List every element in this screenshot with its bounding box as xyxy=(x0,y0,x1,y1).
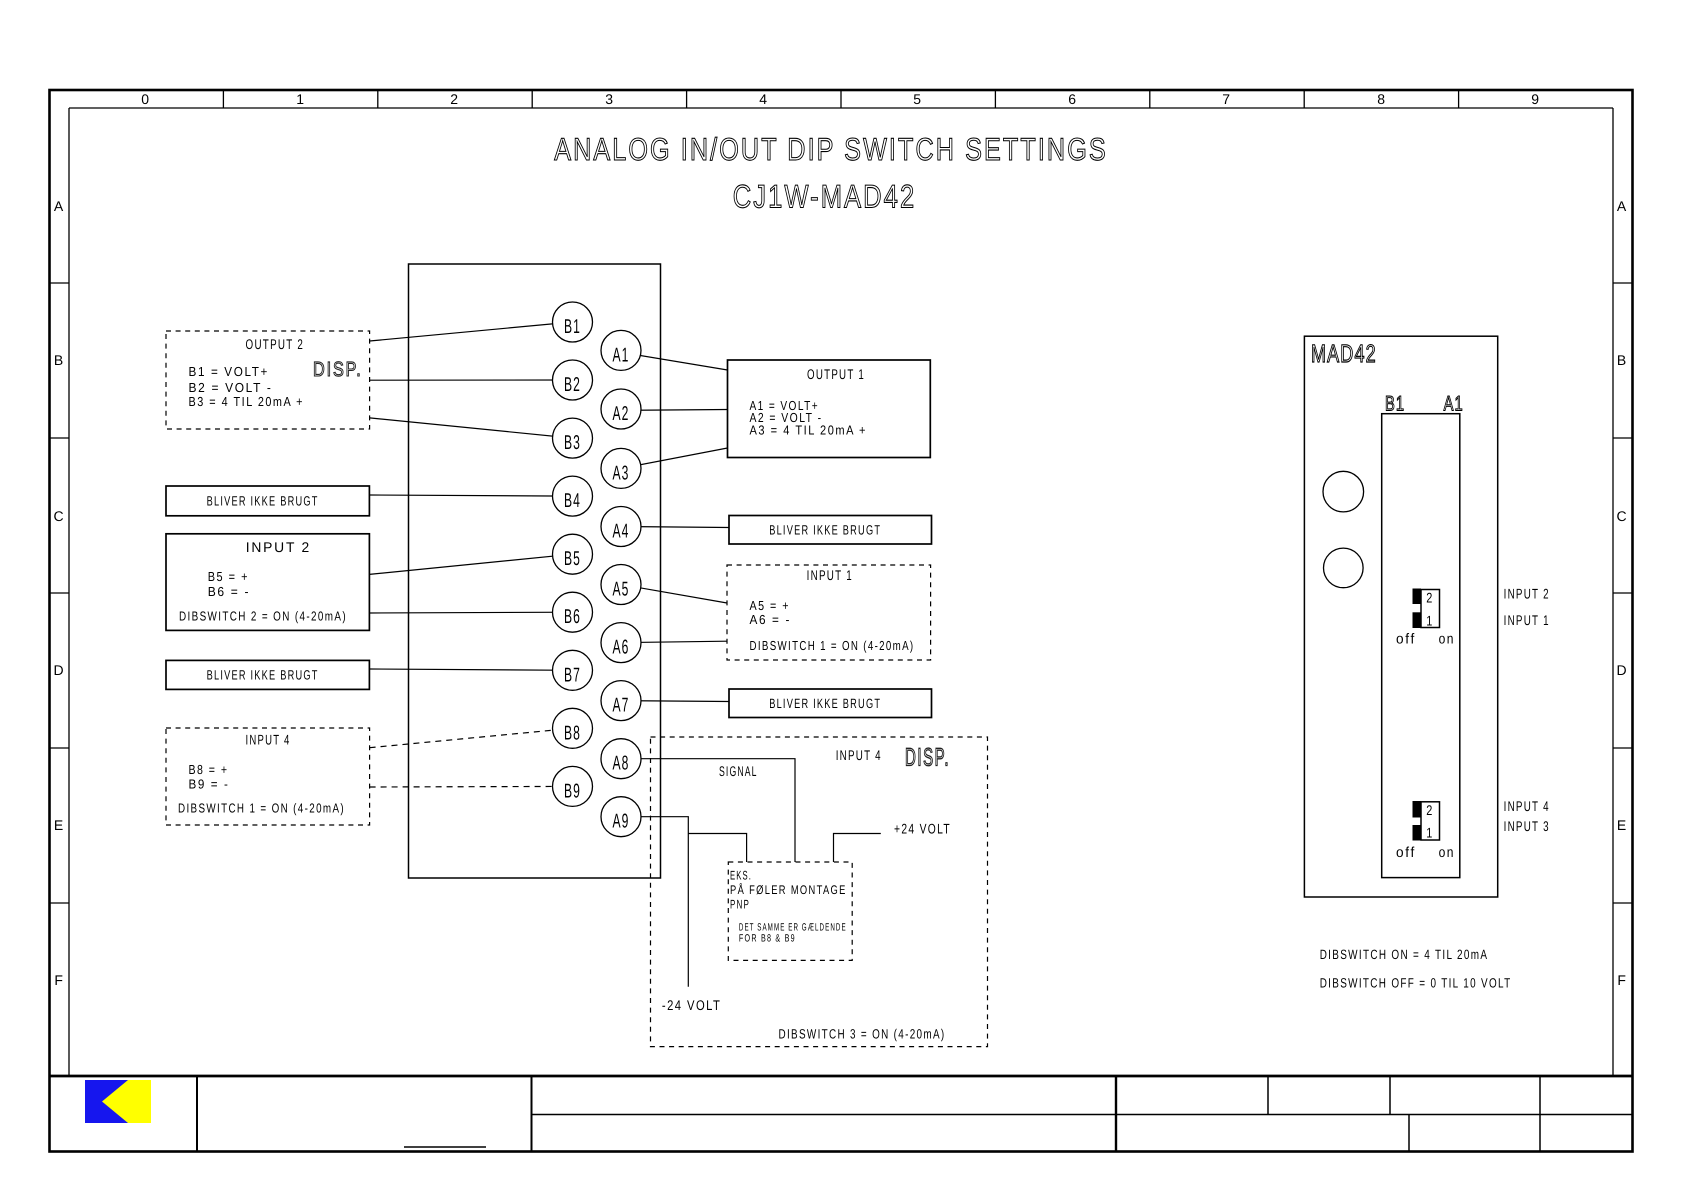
svg-text:INPUT 2: INPUT 2 xyxy=(1504,586,1550,602)
svg-text:BLIVER IKKE BRUGT: BLIVER IKKE BRUGT xyxy=(207,494,319,509)
svg-text:D: D xyxy=(54,662,66,678)
wire A3 to OUTPUT 1 xyxy=(621,448,728,468)
pin B3 xyxy=(553,418,593,458)
svg-text:B: B xyxy=(54,352,65,368)
svg-text:DISP.: DISP. xyxy=(313,358,363,381)
svg-text:1: 1 xyxy=(296,91,306,107)
svg-text:INPUT 3: INPUT 3 xyxy=(1504,818,1550,834)
svg-text:A3: A3 xyxy=(613,462,630,484)
svg-text:B5: B5 xyxy=(564,548,581,570)
wire branch A9 to sensor box xyxy=(688,834,746,863)
svg-text:E: E xyxy=(1617,817,1628,833)
box INPUT 1 (dotted) xyxy=(727,565,931,660)
box INPUT 4 (dotted) xyxy=(166,728,370,825)
wire B2 to OUTPUT 2 xyxy=(370,379,573,381)
mounting hole 1 xyxy=(1323,471,1364,512)
company logo xyxy=(85,1080,151,1123)
svg-text:A9: A9 xyxy=(613,811,630,833)
svg-text:0: 0 xyxy=(141,91,151,107)
wire A8 signal xyxy=(621,759,795,862)
pin B4 xyxy=(553,476,593,516)
svg-text:OUTPUT 2: OUTPUT 2 xyxy=(246,336,305,352)
svg-text:D: D xyxy=(1617,662,1629,678)
svg-text:A8: A8 xyxy=(613,753,630,775)
svg-text:B1: B1 xyxy=(1385,393,1405,416)
title text xyxy=(554,131,1108,167)
box DISP sensor area (dotted) xyxy=(651,737,988,1047)
pin A3 xyxy=(601,448,641,488)
svg-text:B1: B1 xyxy=(564,316,581,338)
wire A5 to INPUT 1 xyxy=(621,585,727,604)
svg-text:+24 VOLT: +24 VOLT xyxy=(894,821,951,837)
wire B4 to BLIVER IKKE BRUGT xyxy=(369,495,572,496)
label DISP. (left) xyxy=(313,358,363,381)
box OUTPUT 1 xyxy=(728,360,931,458)
svg-text:F: F xyxy=(1617,972,1627,988)
wire B7 to BLIVER IKKE BRUGT xyxy=(369,669,572,670)
svg-text:7: 7 xyxy=(1222,91,1232,107)
svg-text:B5 = +: B5 = + xyxy=(208,569,249,584)
pin B8 xyxy=(553,708,593,748)
svg-text:A5: A5 xyxy=(613,579,630,601)
svg-text:off: off xyxy=(1396,845,1416,861)
svg-text:INPUT 1: INPUT 1 xyxy=(1504,612,1550,628)
svg-text:B8: B8 xyxy=(564,722,581,744)
svg-text:DIBSWITCH OFF = 0 TIL 10 VOLT: DIBSWITCH OFF = 0 TIL 10 VOLT xyxy=(1320,976,1512,991)
pin B5 xyxy=(553,534,593,574)
subtitle xyxy=(733,179,916,215)
svg-text:A6 = -: A6 = - xyxy=(750,612,792,627)
pin B7 xyxy=(553,650,593,690)
svg-text:DIBSWITCH 2 = ON (4-20mA): DIBSWITCH 2 = ON (4-20mA) xyxy=(179,609,347,624)
svg-text:MAD42: MAD42 xyxy=(1311,340,1377,368)
svg-text:BLIVER IKKE BRUGT: BLIVER IKKE BRUGT xyxy=(769,696,881,711)
svg-text:A1: A1 xyxy=(1444,393,1464,416)
svg-text:B2: B2 xyxy=(564,374,581,396)
svg-text:8: 8 xyxy=(1377,91,1387,107)
wire B6 to INPUT 2 xyxy=(369,611,572,614)
TITLE BLOCK xyxy=(197,1076,1633,1152)
wire B1 to OUTPUT 2 xyxy=(370,322,573,341)
wire B9 to INPUT 4 dashed xyxy=(370,785,573,788)
svg-text:B6 = -: B6 = - xyxy=(208,584,251,599)
svg-text:A2: A2 xyxy=(613,403,630,425)
pin B2 xyxy=(553,360,593,400)
wire B8 to INPUT 4 dashed xyxy=(370,728,573,747)
wire A6 to INPUT 1 xyxy=(621,641,727,642)
svg-text:FOR B8 & B9: FOR B8 & B9 xyxy=(739,933,796,945)
wire B3 to OUTPUT 2 xyxy=(370,418,573,438)
svg-text:B8 = +: B8 = + xyxy=(189,762,229,777)
svg-text:DIBSWITCH 1 = ON (4-20mA): DIBSWITCH 1 = ON (4-20mA) xyxy=(178,801,345,816)
svg-text:on: on xyxy=(1439,632,1455,648)
svg-text:PNP: PNP xyxy=(730,898,750,912)
box INPUT 2 xyxy=(166,534,369,631)
box BLIVER IKKE BRUGT (right lower) xyxy=(729,689,932,718)
wire B5 to INPUT 2 xyxy=(369,554,572,574)
svg-text:B: B xyxy=(1617,352,1628,368)
svg-text:5: 5 xyxy=(913,91,923,107)
svg-text:1: 1 xyxy=(1426,613,1434,629)
wire A1 to OUTPUT 1 xyxy=(621,352,728,370)
wire A4 to BLIVER IKKE BRUGT xyxy=(621,527,729,528)
svg-text:EKS.: EKS. xyxy=(730,869,752,883)
box BLIVER IKKE BRUGT (left upper) xyxy=(166,486,369,516)
wire A2 to OUTPUT 1 xyxy=(621,409,728,412)
svg-text:B7: B7 xyxy=(564,664,581,686)
svg-text:A: A xyxy=(1617,198,1628,214)
svg-text:2: 2 xyxy=(1426,590,1434,606)
svg-text:4: 4 xyxy=(759,91,769,107)
svg-text:off: off xyxy=(1396,632,1416,648)
dip switch 1 xyxy=(1396,589,1455,648)
box sensor example EKS (dotted) xyxy=(728,862,852,960)
box OUTPUT 2 (dotted) xyxy=(166,331,370,429)
wire A9 to -24 volt xyxy=(621,817,688,987)
svg-text:A3 = 4 TIL 20mA +: A3 = 4 TIL 20mA + xyxy=(750,422,868,437)
pin A7 xyxy=(601,681,641,721)
svg-text:B1 = VOLT+: B1 = VOLT+ xyxy=(189,364,270,379)
svg-text:DIBSWITCH ON = 4 TIL 20mA: DIBSWITCH ON = 4 TIL 20mA xyxy=(1320,947,1489,962)
pin A8 xyxy=(601,739,641,779)
svg-text:CJ1W-MAD42: CJ1W-MAD42 xyxy=(733,179,916,215)
svg-text:A6: A6 xyxy=(613,637,630,659)
svg-text:B6: B6 xyxy=(564,606,581,628)
pin A1 xyxy=(601,330,641,370)
svg-text:B3: B3 xyxy=(564,432,581,454)
svg-text:DIBSWITCH 3 = ON (4-20mA): DIBSWITCH 3 = ON (4-20mA) xyxy=(779,1027,946,1042)
svg-text:INPUT 1: INPUT 1 xyxy=(807,567,853,583)
svg-text:BLIVER IKKE BRUGT: BLIVER IKKE BRUGT xyxy=(769,523,881,538)
svg-text:C: C xyxy=(54,508,66,524)
svg-text:ANALOG IN/OUT DIP SWITCH SETTI: ANALOG IN/OUT DIP SWITCH SETTINGS xyxy=(554,131,1108,167)
svg-text:B9: B9 xyxy=(564,780,581,802)
svg-text:-24 VOLT: -24 VOLT xyxy=(662,997,721,1013)
pin B6 xyxy=(553,592,593,632)
box BLIVER IKKE BRUGT (right upper) xyxy=(729,516,932,545)
box BLIVER IKKE BRUGT (left lower) xyxy=(166,660,369,689)
svg-text:A4: A4 xyxy=(613,521,630,543)
svg-text:PÅ FØLER MONTAGE: PÅ FØLER MONTAGE xyxy=(730,883,847,897)
svg-text:2: 2 xyxy=(450,91,460,107)
svg-text:2: 2 xyxy=(1426,802,1434,818)
svg-text:INPUT 2: INPUT 2 xyxy=(246,539,311,555)
svg-text:C: C xyxy=(1617,508,1629,524)
svg-text:SIGNAL: SIGNAL xyxy=(719,763,758,779)
dip switch 2 xyxy=(1396,801,1455,861)
pin A5 xyxy=(601,565,641,605)
svg-text:OUTPUT 1: OUTPUT 1 xyxy=(807,366,865,382)
unit MAD42 xyxy=(1304,336,1497,897)
svg-text:1: 1 xyxy=(1426,824,1434,840)
svg-text:BLIVER IKKE BRUGT: BLIVER IKKE BRUGT xyxy=(207,668,319,683)
wire +24 volt to sensor box xyxy=(834,834,881,863)
svg-text:9: 9 xyxy=(1531,91,1541,107)
svg-text:B2 = VOLT -: B2 = VOLT - xyxy=(189,380,273,395)
svg-text:6: 6 xyxy=(1068,91,1078,107)
pin B9 xyxy=(553,766,593,806)
terminal connector body xyxy=(409,264,661,878)
svg-text:INPUT 4: INPUT 4 xyxy=(246,732,291,748)
svg-text:E: E xyxy=(54,817,65,833)
svg-text:B4: B4 xyxy=(564,490,581,512)
svg-text:A5 = +: A5 = + xyxy=(750,598,791,613)
svg-text:DIBSWITCH 1 = ON (4-20mA): DIBSWITCH 1 = ON (4-20mA) xyxy=(750,638,915,653)
pin B1 xyxy=(553,302,593,342)
pin A2 xyxy=(601,389,641,429)
svg-text:B9 = -: B9 = - xyxy=(189,777,230,792)
svg-text:INPUT 4: INPUT 4 xyxy=(1504,798,1550,814)
svg-text:INPUT 4: INPUT 4 xyxy=(836,747,882,763)
pin A9 xyxy=(601,797,641,837)
svg-text:DISP.: DISP. xyxy=(905,743,950,771)
svg-text:A7: A7 xyxy=(613,695,630,717)
svg-text:A: A xyxy=(54,198,65,214)
svg-text:3: 3 xyxy=(605,91,615,107)
svg-text:on: on xyxy=(1439,845,1455,861)
svg-text:A1: A1 xyxy=(613,344,630,366)
mounting hole 2 xyxy=(1324,548,1364,588)
pin A4 xyxy=(601,507,641,547)
pin A6 xyxy=(601,623,641,663)
wire A7 to BLIVER IKKE BRUGT xyxy=(621,700,729,703)
svg-text:F: F xyxy=(54,972,64,988)
svg-text:B3 = 4 TIL 20mA +: B3 = 4 TIL 20mA + xyxy=(189,394,305,409)
